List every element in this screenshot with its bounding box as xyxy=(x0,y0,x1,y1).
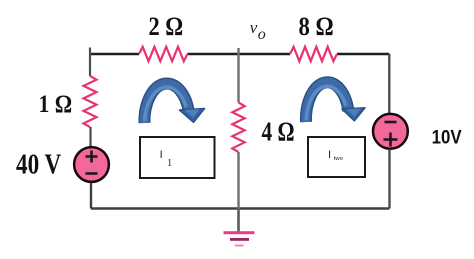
svg-text:8 Ω: 8 Ω xyxy=(299,11,334,41)
ground bar 3 xyxy=(235,245,244,247)
svg-text:10V: 10V xyxy=(432,128,462,149)
voltage source V1 40V circle xyxy=(74,147,109,182)
node stub above middle junction xyxy=(237,48,239,54)
wire right rail upper xyxy=(388,54,390,113)
wire top rail middle segment xyxy=(188,53,291,55)
svg-text:4 Ω: 4 Ω xyxy=(262,116,295,146)
resistor R3 4ohm zigzag xyxy=(232,103,244,153)
node stub above top-left corner xyxy=(89,48,91,55)
wire left rail upper xyxy=(89,54,91,76)
svg-text:2 Ω: 2 Ω xyxy=(149,11,184,41)
V2 plus sign xyxy=(384,133,398,147)
svg-text:40 V: 40 V xyxy=(16,149,61,180)
V2 minus sign xyxy=(385,121,397,124)
wire ground lead xyxy=(237,209,240,232)
label box I2 xyxy=(308,137,365,177)
resistor R2 2ohm zigzag xyxy=(139,47,188,61)
wire right rail lower xyxy=(388,149,390,208)
V1 plus sign xyxy=(86,151,98,163)
V1 minus sign xyxy=(86,172,98,175)
svg-text:two: two xyxy=(334,156,343,162)
wire left rail between 1ohm and source xyxy=(89,127,91,146)
svg-text:I: I xyxy=(160,149,163,161)
wire left rail lower xyxy=(90,183,92,209)
wire top rail right segment xyxy=(337,53,389,55)
svg-text:v: v xyxy=(250,18,258,37)
svg-text:1 Ω: 1 Ω xyxy=(39,89,73,118)
mesh current arrow i1 (left loop, clockwise) xyxy=(144,83,204,123)
wire top rail left segment xyxy=(90,53,139,55)
ground bar 1 xyxy=(224,231,255,234)
mesh current arrow i2 (right loop, clockwise) xyxy=(306,82,365,122)
voltage source V2 10V circle xyxy=(373,114,408,149)
ground bar 2 xyxy=(230,238,249,241)
svg-text:1: 1 xyxy=(167,158,172,169)
wire middle rail upper xyxy=(237,54,239,103)
svg-text:o: o xyxy=(258,26,266,43)
resistor R4 8ohm zigzag xyxy=(290,47,337,61)
wire bottom rail xyxy=(91,207,389,210)
wire middle rail lower xyxy=(237,152,239,209)
svg-text:I: I xyxy=(328,149,331,161)
label box I1 xyxy=(140,137,215,178)
resistor R1 1ohm zigzag xyxy=(84,76,97,127)
